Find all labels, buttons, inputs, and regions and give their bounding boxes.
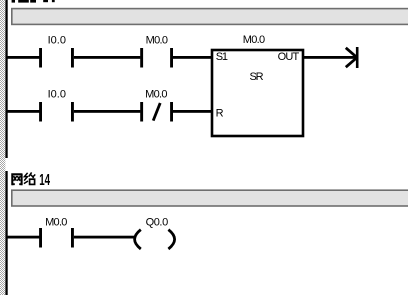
comment bar network 13 <box>12 9 408 25</box>
NC contact M0.0 branch2 <box>140 102 173 122</box>
wire rung3: M0.0 to coil Q0.0 <box>74 236 134 239</box>
wire branch2: rail to contact I0.0 <box>6 110 40 113</box>
network 14 title <box>11 171 50 189</box>
glyph 网 <box>11 174 22 186</box>
contact I0.0 branch2 <box>39 102 74 122</box>
svg-text:M0.0: M0.0 <box>146 34 168 46</box>
contact I0.0 rung1 <box>39 48 74 68</box>
coil Q0.0 <box>135 230 175 249</box>
svg-text:14: 14 <box>39 171 50 189</box>
wire rung1: I0.0 to M0.0 <box>74 56 140 59</box>
wire branch2: I0.0 to M0.0 <box>74 110 140 113</box>
wire rung1: rail to contact I0.0 <box>6 56 40 59</box>
svg-text:M0.0: M0.0 <box>145 88 167 100</box>
left margin hatch strip <box>0 0 5 295</box>
svg-text:Q0.0: Q0.0 <box>146 216 169 228</box>
contact M0.0 rung3 <box>39 228 74 248</box>
svg-text:M0.0: M0.0 <box>243 34 265 46</box>
wire rung1: M0.0 to SR block S1 input <box>173 56 212 59</box>
svg-text:I0.0: I0.0 <box>48 88 66 100</box>
svg-text:SR: SR <box>250 71 264 83</box>
svg-text:R: R <box>216 108 224 120</box>
wire branch2: M0.0 to SR block R input <box>173 110 212 113</box>
wire rung3: rail to contact M0.0 <box>6 236 40 239</box>
continuation arrow terminator <box>346 47 359 68</box>
left power rail network 13 <box>5 0 7 158</box>
wire rung1: SR OUT to continuation arrow <box>304 56 356 59</box>
SR block U (bistable) <box>212 50 303 136</box>
svg-text:OUT: OUT <box>278 51 300 63</box>
svg-text:I0.0: I0.0 <box>48 34 66 46</box>
comment bar network 14 <box>12 190 408 206</box>
network 13 title (clipped at top) <box>12 0 55 3</box>
svg-text:M0.0: M0.0 <box>45 216 67 228</box>
svg-text:S1: S1 <box>216 51 228 63</box>
left power rail network 14 <box>5 171 7 295</box>
contact M0.0 rung1 <box>140 48 173 68</box>
glyph 络 <box>24 172 35 184</box>
